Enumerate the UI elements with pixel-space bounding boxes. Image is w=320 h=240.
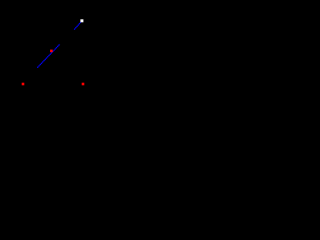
- node: red point A (bottom left): [22, 83, 25, 86]
- node: white point (top right target): [80, 19, 83, 22]
- node: red point C (bottom right): [82, 83, 85, 86]
- wire: blue dashed line segment 1 (lower): [37, 44, 60, 67]
- node: red point B (middle, on line): [50, 50, 53, 53]
- background: [0, 0, 99, 109]
- wire: blue dashed line segment 2 (upper, ends under white dot): [74, 22, 81, 30]
